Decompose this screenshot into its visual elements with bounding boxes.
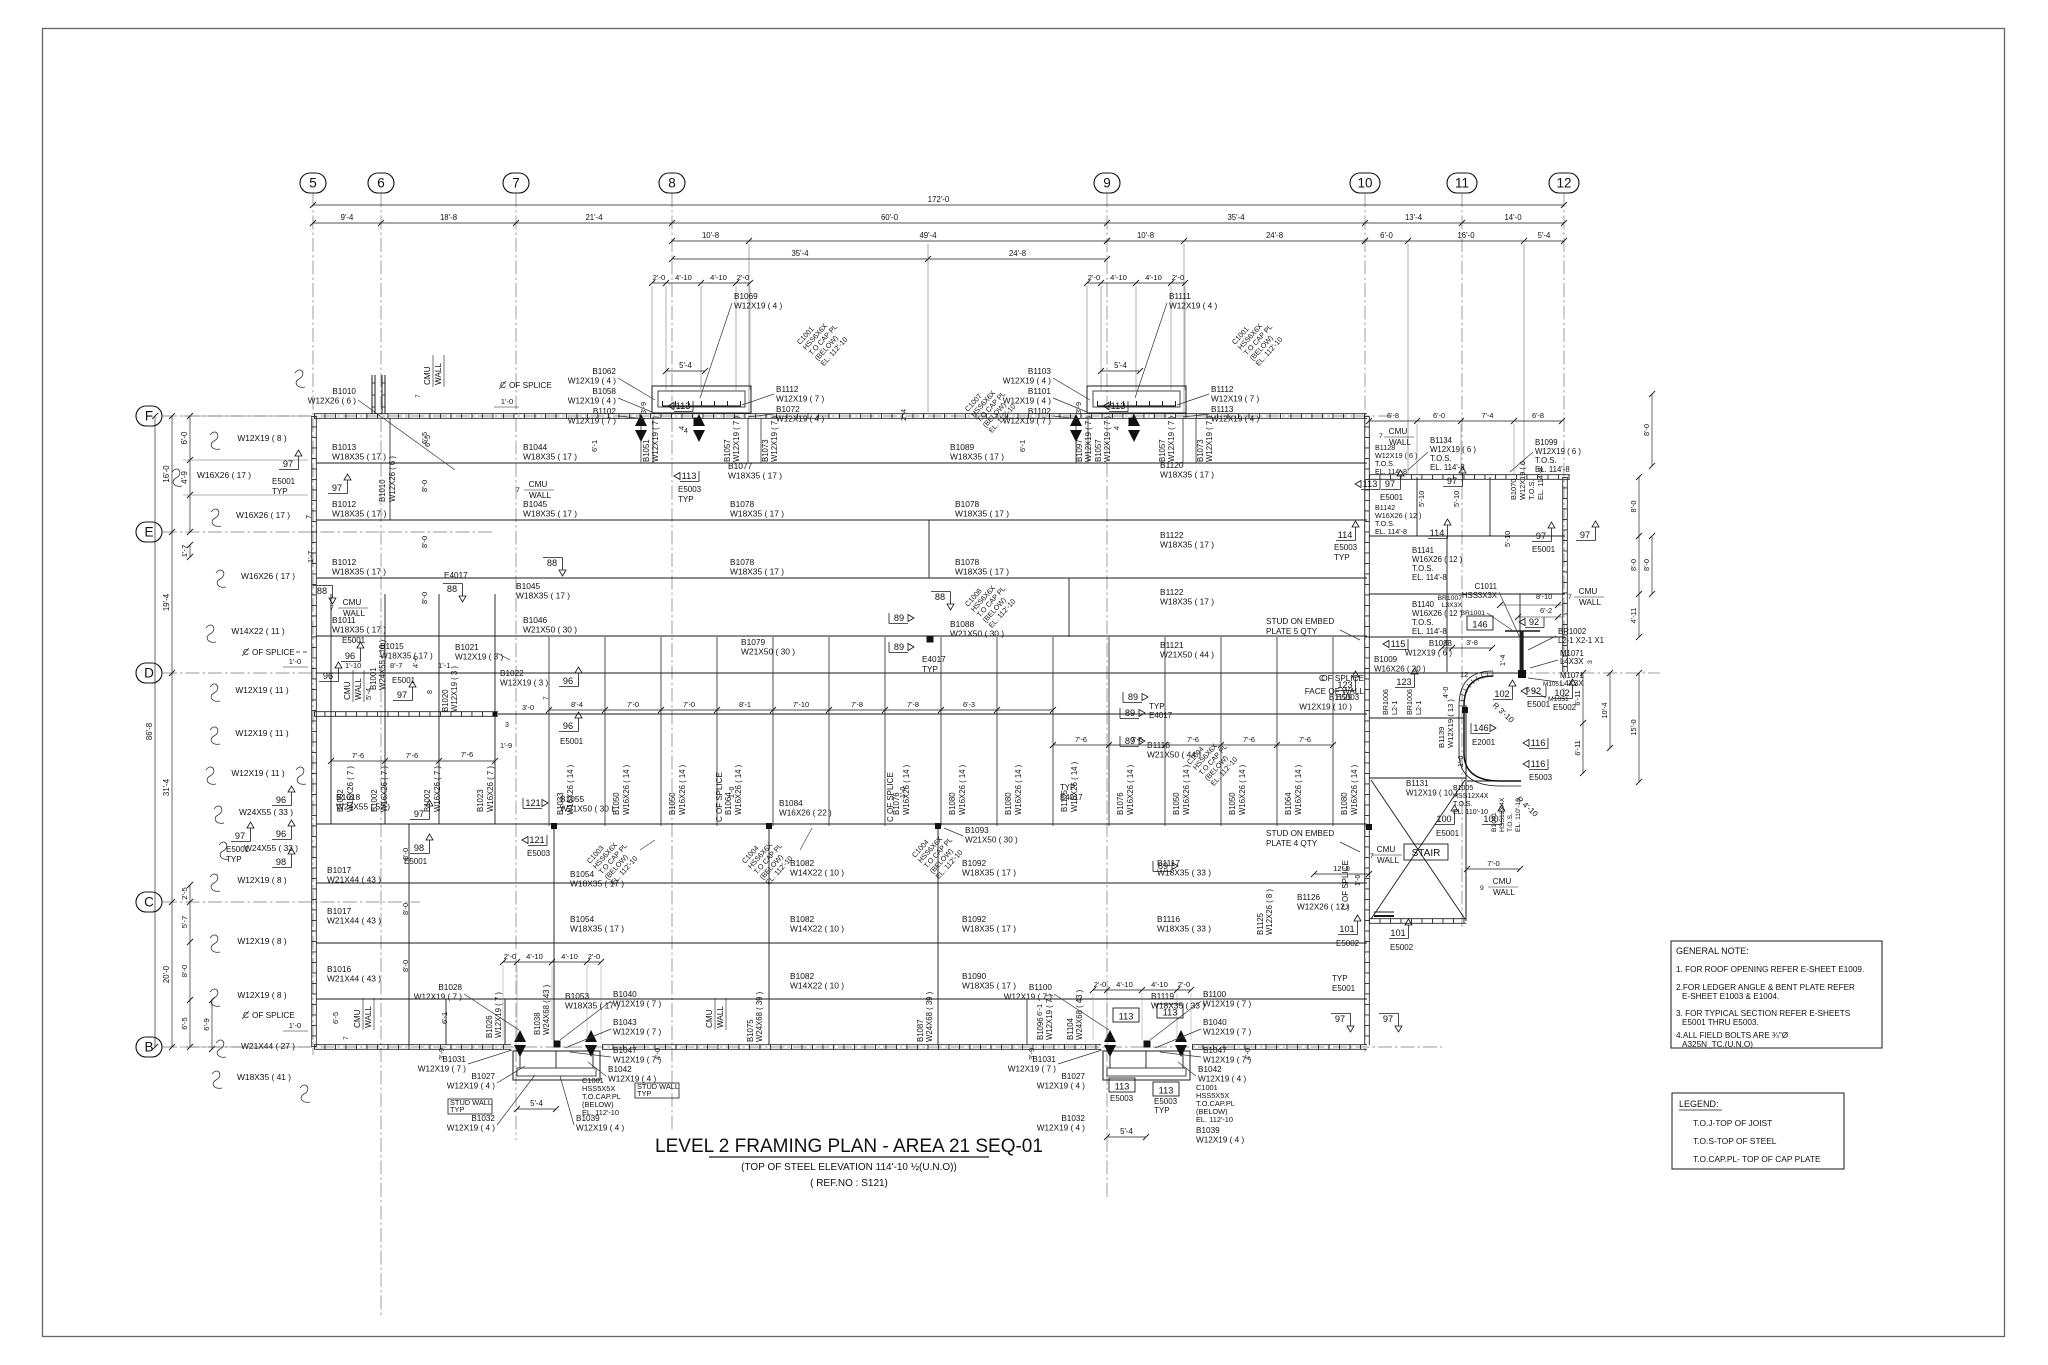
svg-text:W18X35 ( 17 ): W18X35 ( 17 ) xyxy=(380,652,433,661)
svg-text:(TOP OF STEEL ELEVATION 114'-1: (TOP OF STEEL ELEVATION 114'-10 ½(U.N.O)… xyxy=(741,1162,957,1173)
svg-text:6'-8: 6'-8 xyxy=(1387,411,1399,420)
svg-text:E5001: E5001 xyxy=(1532,545,1556,554)
svg-text:B1090: B1090 xyxy=(962,971,987,981)
svg-text:9'-4: 9'-4 xyxy=(341,213,354,222)
svg-text:B1097: B1097 xyxy=(1075,439,1084,462)
svg-text:W12X19 ( 7 ): W12X19 ( 7 ) xyxy=(613,1000,662,1009)
svg-text:W18X35 ( 17 ): W18X35 ( 17 ) xyxy=(955,567,1009,577)
svg-text:5'-10: 5'-10 xyxy=(1503,531,1512,547)
svg-text:B1088: B1088 xyxy=(950,619,975,629)
svg-text:102: 102 xyxy=(1554,688,1569,698)
svg-text:B1100: B1100 xyxy=(1029,983,1053,992)
svg-text:97: 97 xyxy=(397,690,407,700)
svg-text:WALL: WALL xyxy=(716,1006,725,1028)
svg-text:E2001: E2001 xyxy=(1472,738,1496,747)
svg-text:B1082: B1082 xyxy=(790,858,815,868)
svg-text:W18X35 ( 17 ): W18X35 ( 17 ) xyxy=(570,924,624,934)
svg-text:86'-8: 86'-8 xyxy=(145,723,154,740)
svg-text:B1064: B1064 xyxy=(1284,792,1293,815)
svg-text:5'-10: 5'-10 xyxy=(1452,491,1461,507)
svg-text:W12X19 ( 7 ): W12X19 ( 7 ) xyxy=(1008,1065,1057,1074)
svg-text:EL. 114'-8: EL. 114'-8 xyxy=(1536,467,1545,500)
svg-text:E5001: E5001 xyxy=(1332,984,1356,993)
svg-text:W16X26 ( 7 ): W16X26 ( 7 ) xyxy=(346,766,355,812)
svg-text:EL. 112'-10: EL. 112'-10 xyxy=(582,1108,619,1117)
svg-text:4'-0: 4'-0 xyxy=(1243,1048,1252,1060)
svg-text:B1026: B1026 xyxy=(485,1015,494,1038)
svg-text:TYP: TYP xyxy=(1154,1106,1170,1115)
svg-text:B1069: B1069 xyxy=(734,292,758,301)
svg-text:3'-0: 3'-0 xyxy=(522,703,534,712)
svg-text:B1057: B1057 xyxy=(723,439,732,462)
svg-text:W12X19 ( 8 ): W12X19 ( 8 ) xyxy=(237,936,287,946)
svg-text:E5001: E5001 xyxy=(272,477,296,486)
svg-text:6: 6 xyxy=(377,176,385,191)
svg-text:97: 97 xyxy=(1335,1014,1345,1024)
svg-text:T.O.J-TOP OF JOIST: T.O.J-TOP OF JOIST xyxy=(1693,1118,1772,1128)
svg-text:8'-0: 8'-0 xyxy=(420,536,429,548)
svg-text:16'-0: 16'-0 xyxy=(1457,231,1475,240)
svg-text:8'-0: 8'-0 xyxy=(1629,500,1638,512)
svg-text:CMU: CMU xyxy=(1579,587,1598,596)
svg-text:121: 121 xyxy=(525,798,540,808)
svg-text:W12X19 ( 7 ): W12X19 ( 7 ) xyxy=(776,395,825,404)
svg-text:4: 4 xyxy=(684,428,688,435)
svg-text:W12X19 ( 7 ): W12X19 ( 7 ) xyxy=(1003,417,1052,426)
svg-text:97: 97 xyxy=(1383,1014,1393,1024)
svg-text:W24X68 ( 43 ): W24X68 ( 43 ) xyxy=(542,984,551,1035)
svg-text:PLATE 5 QTY: PLATE 5 QTY xyxy=(1266,627,1318,636)
svg-text:EL. 114'-8: EL. 114'-8 xyxy=(1375,467,1407,476)
svg-text:6'-0: 6'-0 xyxy=(1433,411,1445,420)
svg-text:97: 97 xyxy=(235,831,245,841)
svg-text:WALL: WALL xyxy=(354,678,363,700)
svg-text:7'-6: 7'-6 xyxy=(1299,735,1311,744)
svg-text:L4X3X: L4X3X xyxy=(1560,657,1584,666)
svg-text:TYP: TYP xyxy=(922,665,938,674)
svg-text:8: 8 xyxy=(427,690,434,694)
svg-text:F: F xyxy=(145,409,153,424)
svg-text:W21X50 ( 30 ): W21X50 ( 30 ) xyxy=(741,647,795,657)
svg-text:B1028: B1028 xyxy=(438,983,462,992)
svg-text:4'-9: 4'-9 xyxy=(180,471,189,484)
svg-text:W12X19 ( 7 ): W12X19 ( 7 ) xyxy=(1004,993,1053,1002)
svg-text:92: 92 xyxy=(1531,686,1541,696)
svg-text:88: 88 xyxy=(547,558,557,568)
svg-text:2'-0: 2'-0 xyxy=(653,273,665,282)
svg-text:W18X35 ( 17 ): W18X35 ( 17 ) xyxy=(516,591,570,601)
svg-text:B1040: B1040 xyxy=(613,990,637,999)
svg-text:B1082: B1082 xyxy=(790,971,815,981)
svg-text:W12X19 ( 13 ): W12X19 ( 13 ) xyxy=(1446,699,1455,748)
svg-text:B1103: B1103 xyxy=(1028,367,1052,376)
svg-text:B1079: B1079 xyxy=(741,637,766,647)
svg-text:W21X50 ( 30 ): W21X50 ( 30 ) xyxy=(950,629,1004,639)
svg-text:W21X50 ( 30 L: W21X50 ( 30 L xyxy=(560,804,616,814)
svg-text:4: 4 xyxy=(1112,426,1121,430)
svg-text:115: 115 xyxy=(1391,639,1406,649)
svg-text:W12X19 ( 4 ): W12X19 ( 4 ) xyxy=(568,377,617,386)
svg-text:5: 5 xyxy=(1445,638,1449,647)
svg-text:B1042: B1042 xyxy=(1198,1065,1222,1074)
svg-text:W18X35 ( 17 ): W18X35 ( 17 ) xyxy=(332,452,386,462)
svg-text:19'-4: 19'-4 xyxy=(162,593,171,611)
svg-text:B1022: B1022 xyxy=(500,669,524,678)
svg-text:1'-0: 1'-0 xyxy=(1355,874,1362,886)
svg-text:8: 8 xyxy=(668,176,676,191)
svg-text:T.O.S.: T.O.S. xyxy=(1507,813,1514,832)
svg-text:7'-6: 7'-6 xyxy=(461,750,473,759)
svg-text:7'-6: 7'-6 xyxy=(1075,735,1087,744)
svg-text:W12X19 ( 4 ): W12X19 ( 4 ) xyxy=(1211,415,1260,424)
svg-text:W12X19 ( 4 ): W12X19 ( 4 ) xyxy=(447,1124,496,1133)
svg-text:W21X44 ( 43 ): W21X44 ( 43 ) xyxy=(327,974,381,984)
svg-text:W18X35 ( 33 ): W18X35 ( 33 ) xyxy=(1157,924,1211,934)
svg-text:HSS12X4X: HSS12X4X xyxy=(1499,797,1506,832)
svg-text:( REF.NO : S121): ( REF.NO : S121) xyxy=(810,1178,888,1189)
svg-text:HSS12X4X: HSS12X4X xyxy=(1453,793,1489,800)
svg-text:TYP: TYP xyxy=(1149,702,1165,711)
svg-text:WALL: WALL xyxy=(364,1006,373,1028)
svg-text:96: 96 xyxy=(276,795,286,805)
svg-text:E5001: E5001 xyxy=(560,737,584,746)
svg-text:B1140: B1140 xyxy=(1412,600,1435,609)
svg-text:102: 102 xyxy=(1494,689,1509,699)
svg-text:B1058: B1058 xyxy=(592,387,616,396)
svg-text:4'-10: 4'-10 xyxy=(1151,980,1168,989)
svg-text:W18X35 ( 33 ): W18X35 ( 33 ) xyxy=(1157,868,1211,878)
svg-text:6'-2: 6'-2 xyxy=(1540,606,1552,615)
svg-text:B1102: B1102 xyxy=(593,407,617,416)
svg-text:M1051: M1051 xyxy=(1543,681,1563,688)
svg-text:CMU: CMU xyxy=(1389,427,1408,436)
svg-text:113: 113 xyxy=(1111,401,1126,411)
svg-text:CMU: CMU xyxy=(353,1009,362,1028)
svg-text:113: 113 xyxy=(676,401,691,411)
svg-text:CMU: CMU xyxy=(343,598,362,607)
svg-text:92: 92 xyxy=(1529,617,1539,627)
svg-text:BR1002: BR1002 xyxy=(1558,627,1586,636)
svg-text:B1020: B1020 xyxy=(441,689,450,712)
svg-text:97: 97 xyxy=(283,459,293,469)
svg-text:C OF SPLICE: C OF SPLICE xyxy=(715,772,724,822)
svg-text:EL. 114'-8: EL. 114'-8 xyxy=(1412,573,1447,582)
svg-text:B1021: B1021 xyxy=(455,643,479,652)
svg-text:W12X19 ( 7 ): W12X19 ( 7 ) xyxy=(418,1065,467,1074)
svg-text:W12X26 ( 6 ): W12X26 ( 6 ) xyxy=(308,397,357,406)
svg-text:W18X35 ( 17 ): W18X35 ( 17 ) xyxy=(523,509,577,519)
svg-text:B1009: B1009 xyxy=(1374,655,1398,664)
svg-text:W21X50 ( 30 ): W21X50 ( 30 ) xyxy=(965,836,1018,845)
svg-text:4'-10: 4'-10 xyxy=(526,952,543,961)
svg-text:W18X35 ( 17 ): W18X35 ( 17 ) xyxy=(962,981,1016,991)
svg-text:B1087: B1087 xyxy=(916,1019,925,1042)
svg-text:B1001: B1001 xyxy=(369,667,378,690)
svg-text:96: 96 xyxy=(276,829,286,839)
svg-text:123: 123 xyxy=(1337,680,1352,690)
svg-text:2'-0: 2'-0 xyxy=(588,952,600,961)
svg-text:B1122: B1122 xyxy=(1160,530,1184,540)
svg-text:1'-9: 1'-9 xyxy=(500,741,512,750)
svg-text:W21X44 ( 43 ): W21X44 ( 43 ) xyxy=(327,916,381,926)
svg-text:GENERAL NOTE:: GENERAL NOTE: xyxy=(1676,946,1749,956)
svg-text:C1011: C1011 xyxy=(1475,582,1497,591)
svg-text:60'-0: 60'-0 xyxy=(881,213,899,222)
svg-text:B1044: B1044 xyxy=(523,442,548,452)
svg-text:W16X26 ( 14 ): W16X26 ( 14 ) xyxy=(622,764,631,815)
svg-text:B1047: B1047 xyxy=(613,1046,637,1055)
svg-text:L2-1 X2-1 X1: L2-1 X2-1 X1 xyxy=(1558,636,1604,645)
svg-text:49'-4: 49'-4 xyxy=(919,231,937,240)
svg-text:OF SPLICE: OF SPLICE xyxy=(252,1011,295,1020)
svg-text:B1045: B1045 xyxy=(523,499,548,509)
svg-text:96: 96 xyxy=(345,651,355,661)
svg-text:4'-6: 4'-6 xyxy=(411,656,420,668)
svg-text:B1054: B1054 xyxy=(570,914,595,924)
svg-text:W24X68 ( 39 ): W24X68 ( 39 ) xyxy=(925,991,934,1042)
svg-text:W12X19 ( 4 ): W12X19 ( 4 ) xyxy=(1037,1124,1086,1133)
svg-text:W14X22 ( 10 ): W14X22 ( 10 ) xyxy=(790,981,844,991)
svg-text:3'-9: 3'-9 xyxy=(1074,402,1083,414)
svg-text:8'-0: 8'-0 xyxy=(1642,559,1651,571)
svg-text:B1078: B1078 xyxy=(955,557,980,567)
svg-text:W18X35 ( 17 ): W18X35 ( 17 ) xyxy=(1160,470,1214,480)
svg-text:B1125: B1125 xyxy=(1256,912,1265,935)
svg-text:W24X68 ( 39 ): W24X68 ( 39 ) xyxy=(755,991,764,1042)
svg-text:EL. 112'-10: EL. 112'-10 xyxy=(1196,1115,1233,1124)
svg-text:BR1006: BR1006 xyxy=(1405,689,1414,715)
svg-text:W18X35 ( 17 ): W18X35 ( 17 ) xyxy=(730,509,784,519)
svg-text:2'-0: 2'-0 xyxy=(1172,273,1184,282)
svg-text:W16X26 ( 14 ): W16X26 ( 14 ) xyxy=(734,764,743,815)
svg-text:B1078: B1078 xyxy=(955,499,980,509)
svg-text:4'-10: 4'-10 xyxy=(561,952,578,961)
svg-text:B1064: B1064 xyxy=(724,792,733,815)
svg-text:97: 97 xyxy=(332,483,342,493)
svg-text:W12X19 ( 10 ): W12X19 ( 10 ) xyxy=(1299,703,1352,712)
svg-text:B1084: B1084 xyxy=(779,799,803,808)
svg-text:B1039: B1039 xyxy=(1196,1126,1220,1135)
svg-text:89: 89 xyxy=(1128,692,1138,702)
svg-text:B1038: B1038 xyxy=(533,1012,542,1035)
svg-text:B1010: B1010 xyxy=(378,479,387,502)
svg-text:B1050: B1050 xyxy=(1172,792,1181,815)
svg-text:E5003: E5003 xyxy=(1334,543,1358,552)
svg-text:B1129: B1129 xyxy=(1329,693,1353,702)
svg-text:116: 116 xyxy=(1531,738,1546,748)
svg-text:E5001: E5001 xyxy=(226,845,250,854)
svg-text:W12X19 ( 4 ): W12X19 ( 4 ) xyxy=(447,1082,496,1091)
svg-text:B1032: B1032 xyxy=(1061,1114,1085,1123)
svg-text:B1078: B1078 xyxy=(730,499,755,509)
svg-text:E5003: E5003 xyxy=(1529,773,1553,782)
svg-text:B1042: B1042 xyxy=(608,1065,632,1074)
svg-text:4'-10: 4'-10 xyxy=(1110,273,1127,282)
svg-text:113: 113 xyxy=(1159,1086,1174,1096)
svg-text:B1141: B1141 xyxy=(1412,546,1434,555)
svg-text:W18X35 ( 17 ): W18X35 ( 17 ) xyxy=(1160,597,1214,607)
svg-text:C: C xyxy=(1319,674,1325,683)
svg-text:4'-10: 4'-10 xyxy=(710,273,727,282)
svg-text:WALL: WALL xyxy=(1493,888,1515,897)
svg-text:W12X19 ( 4 ): W12X19 ( 4 ) xyxy=(1169,302,1218,311)
svg-text:96: 96 xyxy=(563,721,573,731)
svg-text:B1082: B1082 xyxy=(790,914,815,924)
svg-text:7'-8: 7'-8 xyxy=(907,700,919,709)
svg-text:4'-10: 4'-10 xyxy=(675,273,692,282)
svg-text:W24X68 ( 43 ): W24X68 ( 43 ) xyxy=(1075,989,1084,1040)
svg-text:4'-0: 4'-0 xyxy=(1443,686,1450,698)
svg-text:B1080: B1080 xyxy=(948,792,957,815)
svg-text:W12X19 ( 7 ): W12X19 ( 7 ) xyxy=(1203,1000,1252,1009)
svg-text:B1013: B1013 xyxy=(332,442,357,452)
svg-text:B1017: B1017 xyxy=(327,906,352,916)
svg-text:6'-1: 6'-1 xyxy=(590,440,599,452)
svg-text:STUD ON EMBED: STUD ON EMBED xyxy=(1266,617,1334,626)
svg-text:B1080: B1080 xyxy=(1004,792,1013,815)
svg-text:B1139: B1139 xyxy=(1437,727,1446,748)
svg-text:8'-7: 8'-7 xyxy=(390,661,402,670)
svg-text:B1117: B1117 xyxy=(1157,858,1180,868)
svg-text:B1112: B1112 xyxy=(1211,385,1234,394)
svg-text:6'-11: 6'-11 xyxy=(1573,690,1582,705)
svg-text:TYP: TYP xyxy=(678,495,694,504)
svg-text:113: 113 xyxy=(1115,1082,1130,1092)
svg-text:24'-8: 24'-8 xyxy=(1266,231,1283,240)
svg-text:146: 146 xyxy=(1473,723,1488,733)
svg-text:W16X26 ( 14 ): W16X26 ( 14 ) xyxy=(1350,764,1359,815)
svg-text:B1057: B1057 xyxy=(1158,439,1167,462)
svg-text:W18X35 ( 17 ): W18X35 ( 17 ) xyxy=(523,452,577,462)
svg-text:B1002: B1002 xyxy=(370,789,379,812)
svg-text:89: 89 xyxy=(894,642,904,652)
svg-text:W12X19 ( 7 ): W12X19 ( 7 ) xyxy=(414,993,463,1002)
svg-text:7: 7 xyxy=(1379,433,1383,440)
svg-text:B: B xyxy=(144,1040,153,1055)
svg-text:W12X19 ( 7 ): W12X19 ( 7 ) xyxy=(613,1028,662,1037)
svg-text:CMU: CMU xyxy=(529,480,548,489)
svg-text:CMU: CMU xyxy=(705,1009,714,1028)
svg-text:W12X19 ( 11 ): W12X19 ( 11 ) xyxy=(235,685,289,695)
svg-text:W14X22 ( 10 ): W14X22 ( 10 ) xyxy=(790,868,844,878)
svg-text:W16X26 ( 17 ): W16X26 ( 17 ) xyxy=(236,510,290,520)
svg-text:W12X26 ( 8 ): W12X26 ( 8 ) xyxy=(1265,889,1274,935)
svg-text:113: 113 xyxy=(1363,479,1378,489)
svg-text:W21X44 ( 27 ): W21X44 ( 27 ) xyxy=(241,1041,295,1051)
svg-text:W12X19 ( 7 ): W12X19 ( 7 ) xyxy=(1203,1028,1252,1037)
svg-text:B1116: B1116 xyxy=(1157,914,1180,924)
svg-text:W12X19 ( 7 ): W12X19 ( 7 ) xyxy=(568,417,617,426)
svg-text:101: 101 xyxy=(1339,924,1354,934)
svg-text:B1075: B1075 xyxy=(746,1019,755,1042)
svg-text:1'-7: 1'-7 xyxy=(306,551,315,563)
svg-text:B1076: B1076 xyxy=(892,792,901,815)
svg-text:E5003: E5003 xyxy=(527,849,551,858)
svg-text:1'-1: 1'-1 xyxy=(438,661,450,670)
svg-text:7: 7 xyxy=(330,605,334,612)
svg-text:W12X19 ( 3 ): W12X19 ( 3 ) xyxy=(500,679,549,688)
svg-text:113: 113 xyxy=(1163,1008,1178,1018)
svg-text:E5001: E5001 xyxy=(1527,700,1551,709)
svg-text:3: 3 xyxy=(1587,660,1594,664)
svg-text:B1070: B1070 xyxy=(1509,479,1518,500)
svg-text:8'-0: 8'-0 xyxy=(401,960,410,972)
svg-text:W18X35 ( 17 ): W18X35 ( 17 ) xyxy=(1160,540,1214,550)
svg-text:B1023: B1023 xyxy=(476,789,485,812)
svg-text:7'-0: 7'-0 xyxy=(1487,859,1499,868)
svg-text:16'-0: 16'-0 xyxy=(162,465,171,483)
svg-text:B1104: B1104 xyxy=(1066,1017,1075,1040)
svg-text:3'-8: 3'-8 xyxy=(1466,638,1478,647)
svg-text:21'-4: 21'-4 xyxy=(585,213,603,222)
svg-text:CMU: CMU xyxy=(423,366,432,385)
svg-text:TYP: TYP xyxy=(1060,783,1075,792)
svg-text:E5002: E5002 xyxy=(1336,939,1360,948)
svg-text:20'-0: 20'-0 xyxy=(162,965,171,983)
svg-text:7: 7 xyxy=(512,176,520,191)
svg-text:10'-4: 10'-4 xyxy=(1600,702,1609,718)
svg-text:E5001: E5001 xyxy=(1436,829,1460,838)
svg-text:WALL: WALL xyxy=(434,363,443,385)
svg-text:B1073: B1073 xyxy=(1196,439,1205,462)
svg-text:12'-0: 12'-0 xyxy=(1333,864,1350,873)
svg-text:CMU: CMU xyxy=(1377,845,1396,854)
svg-text:1'-4: 1'-4 xyxy=(1500,654,1507,666)
svg-text:97: 97 xyxy=(1447,476,1457,486)
svg-text:14'-0: 14'-0 xyxy=(1504,213,1522,222)
svg-text:8'-0: 8'-0 xyxy=(420,592,429,604)
svg-text:W18X35 ( 17 ): W18X35 ( 17 ) xyxy=(962,924,1016,934)
svg-text:W18X35 ( 17 ): W18X35 ( 17 ) xyxy=(955,509,1009,519)
svg-text:B1121: B1121 xyxy=(1160,640,1184,650)
svg-text:7'-0: 7'-0 xyxy=(683,700,695,709)
svg-text:35'-4: 35'-4 xyxy=(791,249,809,258)
svg-text:89: 89 xyxy=(894,613,904,623)
svg-text:W16X26 ( 12 ): W16X26 ( 12 ) xyxy=(1412,555,1463,564)
svg-text:7: 7 xyxy=(516,487,520,494)
svg-text:W12X19 ( 10 ): W12X19 ( 10 ) xyxy=(1406,789,1458,798)
svg-text:101: 101 xyxy=(1390,928,1405,938)
svg-text:B1102: B1102 xyxy=(1028,407,1052,416)
svg-text:8'-10: 8'-10 xyxy=(1536,592,1552,601)
svg-text:114: 114 xyxy=(1338,530,1353,540)
svg-text:BR1007: BR1007 xyxy=(1437,595,1462,602)
svg-text:B1093: B1093 xyxy=(965,826,989,835)
svg-text:L3X3X: L3X3X xyxy=(1442,602,1463,609)
svg-text:4'-11: 4'-11 xyxy=(1629,608,1638,624)
svg-text:T.O.S.: T.O.S. xyxy=(1527,479,1536,500)
svg-text:W12X19 ( 7 ): W12X19 ( 7 ) xyxy=(732,416,741,462)
svg-text:W12X19 ( 6: W12X19 ( 6 xyxy=(1518,461,1527,500)
svg-text:2.FOR LEDGER ANGLE & BENT PLAT: 2.FOR LEDGER ANGLE & BENT PLATE REFER xyxy=(1676,983,1855,992)
svg-text:STUD ON EMBED: STUD ON EMBED xyxy=(1266,829,1334,838)
svg-text:89: 89 xyxy=(1125,708,1135,718)
svg-text:W18X35 ( 41 ): W18X35 ( 41 ) xyxy=(237,1072,291,1082)
svg-text:E5001: E5001 xyxy=(1380,493,1404,502)
svg-text:E5003: E5003 xyxy=(678,485,702,494)
svg-text:E5001: E5001 xyxy=(342,636,366,645)
svg-text:E5001 THRU E5003.: E5001 THRU E5003. xyxy=(1682,1018,1759,1027)
svg-text:WALL: WALL xyxy=(529,491,551,500)
svg-text:B1113: B1113 xyxy=(1211,405,1234,414)
svg-text:W12X19 ( 6 ): W12X19 ( 6 ) xyxy=(1430,445,1476,454)
svg-text:10'-8: 10'-8 xyxy=(1137,231,1154,240)
svg-text:W12X19 ( 3 ): W12X19 ( 3 ) xyxy=(450,666,459,712)
svg-text:8'-0: 8'-0 xyxy=(420,480,429,492)
svg-text:113: 113 xyxy=(1119,1012,1134,1022)
svg-text:B1050: B1050 xyxy=(1228,792,1237,815)
svg-text:98: 98 xyxy=(276,857,286,867)
